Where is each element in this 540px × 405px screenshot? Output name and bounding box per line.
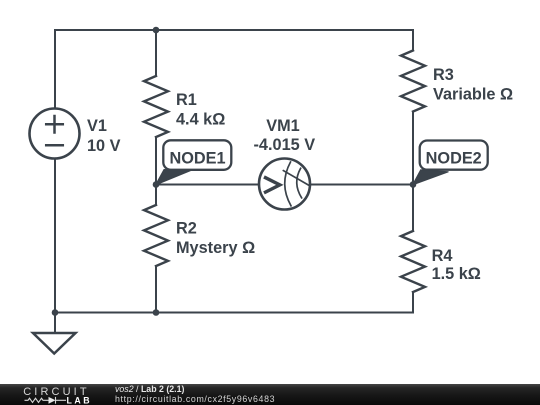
wire left vertical bottom (V1 bottom lead) <box>54 159 56 313</box>
wire R3 bottom to NODE2 <box>412 112 414 185</box>
voltmeter VM1 <box>259 159 310 210</box>
svg-text:R2: R2 <box>176 219 197 237</box>
wire middle vertical (top node to R1) <box>155 30 157 76</box>
junction node A (NODE1) <box>153 181 160 188</box>
wire R1 bottom to NODE1 <box>155 137 157 185</box>
node NODE1 callout box <box>163 140 231 170</box>
svg-text:V1: V1 <box>87 117 107 135</box>
svg-text:-4.015 V: -4.015 V <box>254 136 316 154</box>
junction bottom middle <box>153 309 160 316</box>
wire R2 bottom to bottom rail <box>155 266 157 313</box>
svg-text:1.5 kΩ: 1.5 kΩ <box>432 265 481 283</box>
resistor R4 <box>401 231 425 292</box>
svg-text:Variable Ω: Variable Ω <box>433 86 513 104</box>
svg-text:R4: R4 <box>432 247 453 265</box>
svg-text:R1: R1 <box>176 91 197 109</box>
svg-text:4.4 kΩ: 4.4 kΩ <box>176 111 225 129</box>
wire right vertical (top to R3) <box>412 30 414 51</box>
CircuitLab logo <box>0 384 110 405</box>
node NODE1 callout pointer <box>156 170 193 186</box>
svg-text:VM1: VM1 <box>266 117 299 135</box>
svg-text:R3: R3 <box>433 66 454 84</box>
node NODE2 callout box <box>420 141 488 170</box>
wire NODE1 to R2 <box>155 185 157 206</box>
wire R4 bottom to bottom rail <box>412 292 414 313</box>
resistor R2 <box>144 205 168 266</box>
wire left vertical top (V1 top lead) <box>54 30 56 109</box>
ground <box>33 333 76 354</box>
resistor R1 <box>144 76 168 137</box>
svg-text:NODE1: NODE1 <box>169 150 225 168</box>
wire voltmeter right terminal to NODE2 <box>310 184 413 186</box>
svg-text:NODE2: NODE2 <box>426 150 482 168</box>
wire top horizontal <box>55 29 413 31</box>
node NODE2 callout pointer <box>413 170 449 185</box>
footer title text <box>115 384 275 404</box>
wire NODE1 to voltmeter left terminal <box>156 184 259 186</box>
voltage source V1 <box>30 109 80 159</box>
junction top middle <box>153 27 160 34</box>
junction node B (NODE2) <box>410 181 417 188</box>
wire bottom horizontal rail <box>55 312 413 314</box>
svg-text:10 V: 10 V <box>87 137 121 155</box>
junction bottom left (ground) <box>52 309 59 316</box>
footer bar <box>0 384 540 405</box>
svg-text:LAB: LAB <box>67 395 93 405</box>
wire NODE2 to R4 <box>412 185 414 232</box>
resistor R3 <box>401 51 425 112</box>
svg-text:Mystery Ω: Mystery Ω <box>176 239 255 257</box>
wire ground stub <box>54 313 56 334</box>
